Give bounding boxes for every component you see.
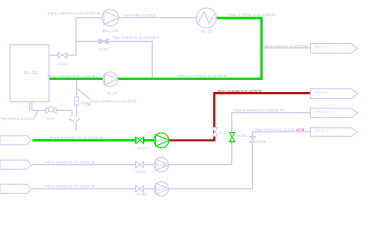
wire bypass check valve to green return drop [108, 41, 152, 77]
svg-text:SL-07: SL-07 [156, 187, 166, 191]
pipe green supply loop [49, 18, 262, 79]
pump SL-06 row 2 [154, 158, 169, 172]
svg-text:Pipe-HHW-D-IC-615CB: Pipe-HHW-D-IC-615CB [45, 185, 96, 189]
wire VC01 to riser to pump BL-10 suction [67, 18, 102, 56]
wire connector 4 down through VC08 to row 3 [169, 132, 311, 189]
svg-text:SL-05: SL-05 [156, 139, 166, 143]
valve VC07 on red riser [212, 128, 218, 137]
connector right 2 [310, 89, 357, 99]
heater BL-11 [196, 8, 216, 28]
svg-text:SL-13: SL-13 [24, 70, 38, 75]
wire drain drop from green line [76, 80, 78, 97]
tank SL-13 [10, 45, 49, 102]
connector right 4 [310, 128, 357, 137]
pipe green row 1 inlet [32, 139, 154, 141]
svg-text:. . . . . . . . . .: . . . . . . . . . . [315, 114, 345, 118]
wire pump BL-10 discharge to heater [119, 17, 197, 19]
svg-text:BL-10: BL-10 [201, 30, 213, 34]
connector left row 1 [0, 136, 31, 145]
valve VC04 (drain) [46, 107, 56, 114]
svg-text:VC01: VC01 [57, 62, 68, 66]
svg-text:SL-06: SL-06 [156, 163, 166, 167]
pump SL-05 row 1 (green) [154, 133, 169, 148]
wire VC04 to funnel [56, 110, 72, 116]
svg-text:Pipe-3-HHW-D-IC-615CB: Pipe-3-HHW-D-IC-615CB [50, 136, 105, 140]
svg-text:. . . . . . . . . .: . . . . . . . . . . [315, 133, 345, 137]
svg-text:HHW S: HHW S [2, 139, 12, 143]
svg-text:4CB: 4CB [296, 128, 306, 132]
svg-text:BL-10: BL-10 [103, 29, 118, 33]
svg-text:VC07: VC07 [218, 131, 228, 135]
svg-text:VC04: VC04 [46, 117, 54, 121]
svg-text:Pipe-HHW-D-IC-615CB: Pipe-HHW-D-IC-615CB [265, 44, 309, 48]
svg-text:HHW S: HHW S [2, 163, 12, 167]
svg-text:Pipe-HHW-D-IC-615CB: Pipe-HHW-D-IC-615CB [1, 117, 36, 121]
valve VC06 green [229, 132, 235, 142]
check valve row 1 (green) [136, 137, 144, 144]
relief valve VC05 [74, 97, 79, 105]
valve VC01 [58, 52, 67, 58]
wire row 2 from left connector to valve [33, 164, 136, 166]
svg-text:VC01: VC01 [137, 146, 148, 150]
connector left row 3 [0, 184, 31, 193]
wire below relief valve to funnel [76, 105, 78, 117]
svg-text:Pipe-3-HHW-D-IC-615CB: Pipe-3-HHW-D-IC-615CB [228, 12, 275, 17]
svg-text:Pipe-3-HHW-D-IC-615CB: Pipe-3-HHW-D-IC-615CB [255, 128, 294, 132]
svg-text:Pipe-3-HHW-D-IC-615CB 4C: Pipe-3-HHW-D-IC-615CB 4C [234, 109, 284, 113]
connector left row 2 [0, 160, 31, 169]
svg-text:VC08: VC08 [256, 140, 266, 144]
svg-text:Pipe-3-HHW-D-IC-615CB: Pipe-3-HHW-D-IC-615CB [177, 74, 228, 78]
svg-text:Pipe-3-HHW-D-IC-615CB: Pipe-3-HHW-D-IC-615CB [123, 13, 157, 17]
svg-text:Pipe-HHW-D-IC-615CB: Pipe-HHW-D-IC-615CB [48, 11, 101, 16]
svg-text:Pipe-3-HHW-D-IC-615CB 3": Pipe-3-HHW-D-IC-615CB 3" [113, 36, 161, 40]
wire bypass branch to check valve VC02 [76, 40, 99, 42]
pump SL-16 on green line [103, 72, 118, 86]
svg-text:Pipe-3-HHW-D-IC-615CB: Pipe-3-HHW-D-IC-615CB [48, 75, 97, 79]
pipe red pump discharge to connector 2 [169, 93, 311, 140]
svg-text:VC02: VC02 [136, 170, 146, 174]
svg-text:VC06: VC06 [237, 134, 247, 138]
svg-text:VC03: VC03 [137, 193, 147, 197]
svg-text:Pipe-HHW-D-IC-615CB: Pipe-HHW-D-IC-615CB [91, 100, 137, 104]
svg-text:SL-16: SL-16 [107, 92, 117, 96]
wire connector 3 down through VC06 to row 2 [168, 113, 310, 165]
svg-text:VC02: VC02 [98, 48, 109, 52]
valve VC08 [250, 137, 256, 143]
svg-text:HHW S: HHW S [2, 187, 12, 191]
wire green riser to right connector 1 [262, 47, 310, 49]
check valve VC02 (bypass) [99, 39, 109, 45]
pump SL-07 row 3 [154, 182, 169, 196]
leader line bottom-left label [34, 111, 39, 118]
connector right 1 [310, 44, 357, 54]
wire tank outlet to VC01 [49, 54, 58, 56]
connector right 3 [310, 108, 357, 118]
check valve row 3 [136, 185, 144, 192]
svg-text:Pipe-3-HHW-D-IC-615CB: Pipe-3-HHW-D-IC-615CB [218, 89, 262, 93]
wire tank bottom outlet nozzle [30, 102, 46, 111]
wire row 2 valve to pump [144, 164, 154, 166]
svg-text:Pipe-HHW-D-IC-615CB: Pipe-HHW-D-IC-615CB [45, 160, 96, 164]
svg-text:CB: CB [85, 103, 91, 107]
check valve row 2 [136, 161, 144, 168]
wire row 3 valve to pump [144, 188, 154, 190]
svg-text:. . . . . . . . . .: . . . . . . . . . . [315, 50, 345, 54]
funnel drain [69, 118, 80, 130]
wire row 3 from left connector to valve [33, 188, 136, 190]
pump BL-10 [102, 9, 119, 26]
svg-text:. . . . . . . . . .: . . . . . . . . . . [315, 95, 345, 99]
leader line drain label [77, 89, 90, 100]
